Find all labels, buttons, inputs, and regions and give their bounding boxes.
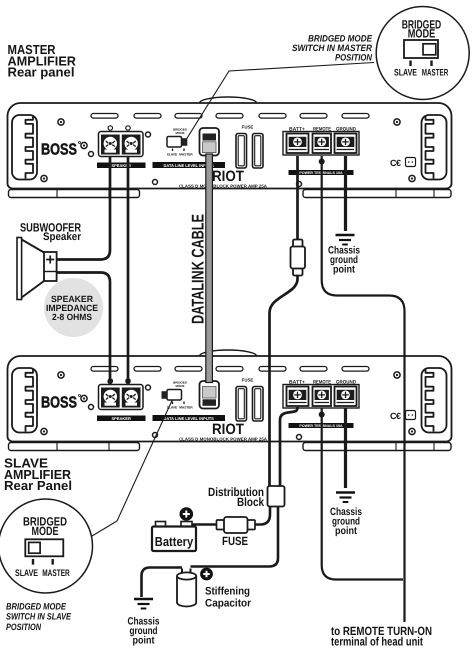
svg-text:Rear Panel: Rear Panel [4,478,72,493]
svg-text:DATALINK CABLE: DATALINK CABLE [189,214,208,324]
svg-text:point: point [133,635,155,647]
svg-text:BRIDGED MODE: BRIDGED MODE [308,34,373,44]
svg-text:Battery: Battery [155,534,194,549]
svg-text:POSITION: POSITION [335,53,372,63]
svg-text:BRIDGED MODE: BRIDGED MODE [6,602,67,612]
svg-text:MASTER: MASTER [42,568,70,579]
svg-text:SWITCH IN MASTER: SWITCH IN MASTER [292,43,372,53]
svg-text:POSITION: POSITION [6,622,41,632]
svg-text:point: point [335,525,357,537]
svg-text:Rear panel: Rear panel [8,65,75,80]
svg-text:MASTER: MASTER [422,68,449,79]
svg-text:2-8 OHMS: 2-8 OHMS [52,312,92,322]
svg-text:MODE: MODE [32,524,59,538]
svg-text:Block: Block [237,495,264,509]
svg-text:SLAVE: SLAVE [15,568,38,579]
svg-text:SWITCH IN SLAVE: SWITCH IN SLAVE [6,612,72,622]
svg-text:FUSE: FUSE [222,534,248,548]
svg-text:SLAVE: SLAVE [394,68,417,79]
svg-text:terminal of head unit: terminal of head unit [331,635,423,648]
svg-text:Stiffening: Stiffening [205,586,250,598]
svg-text:Speaker: Speaker [43,231,82,243]
svg-text:Capacitor: Capacitor [205,598,252,610]
svg-text:point: point [333,264,355,276]
svg-text:MODE: MODE [408,26,436,40]
